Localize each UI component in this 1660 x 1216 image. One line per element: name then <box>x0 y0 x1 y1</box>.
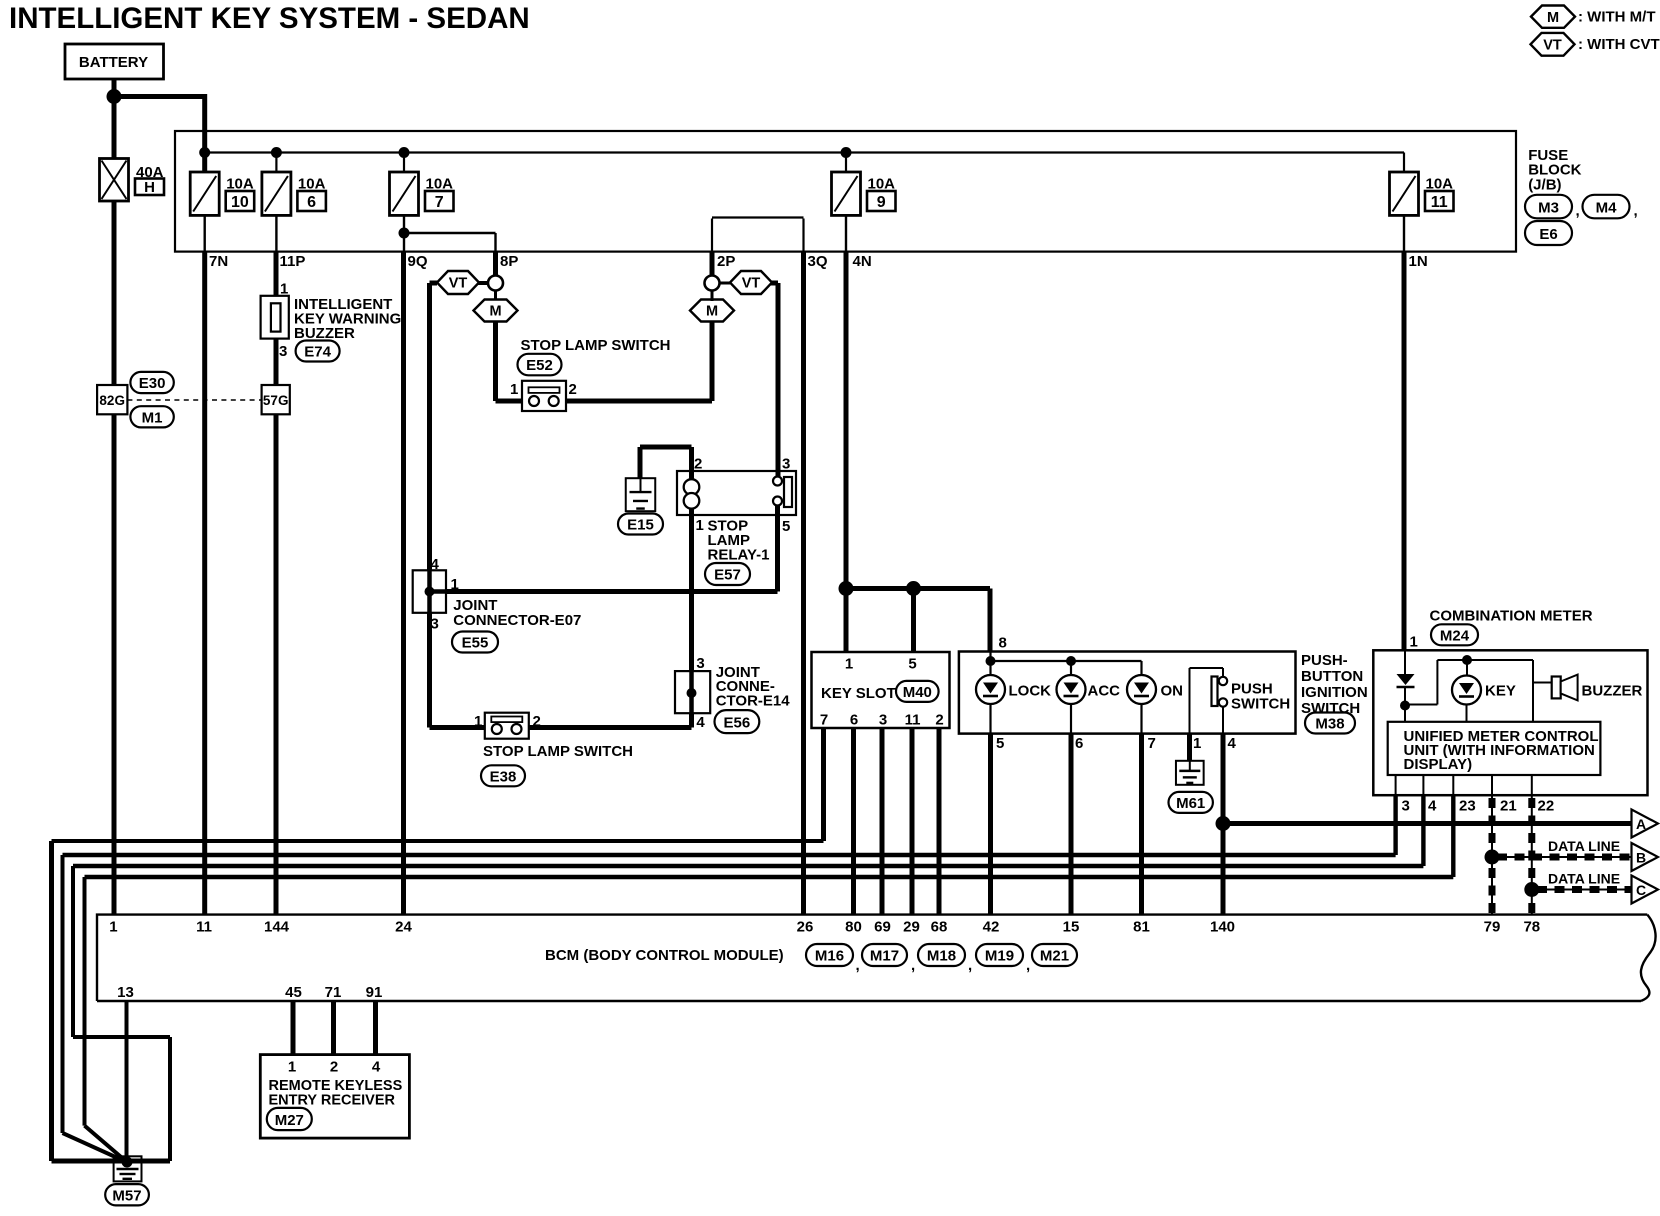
label terminal 9Q <box>408 253 428 270</box>
label relay pin 1 <box>696 517 704 534</box>
svg-text:15: 15 <box>1063 919 1080 936</box>
joint connector E55 box <box>413 570 446 613</box>
wire M stub 8P <box>494 290 497 301</box>
wire relay pin1 to joint connector E14 <box>689 505 694 671</box>
svg-text:8P: 8P <box>500 253 518 270</box>
node meter diode <box>1400 701 1410 711</box>
svg-text:,: , <box>1576 203 1580 220</box>
wire meter internal <box>1405 660 1552 722</box>
symbol M 8P <box>474 300 518 322</box>
svg-text:B: B <box>1636 850 1646 866</box>
svg-text:2: 2 <box>330 1059 338 1076</box>
svg-text:11: 11 <box>1431 194 1448 211</box>
svg-text:DATA LINE: DATA LINE <box>1548 871 1620 887</box>
label combination meter <box>1430 608 1593 625</box>
wire fuse 7 out <box>403 215 405 251</box>
terminal A <box>1632 810 1659 838</box>
label meter pin 3 <box>1402 798 1410 815</box>
svg-text:1: 1 <box>288 1059 296 1076</box>
svg-text:69: 69 <box>874 919 891 936</box>
wire relay pin5 to joint connector E55 <box>446 505 778 592</box>
wire key slot pin2 to BCM 68 <box>937 728 942 915</box>
fusible link H 40A <box>100 159 165 202</box>
svg-text:KEY: KEY <box>1485 683 1516 700</box>
wire battery stub <box>112 79 117 97</box>
label receiver pin 2 <box>330 1059 338 1076</box>
symbol VT 8P <box>437 271 489 294</box>
svg-text:3: 3 <box>782 456 790 473</box>
label key slot pin 3 <box>879 712 887 729</box>
svg-text:SWITCH: SWITCH <box>1231 696 1290 713</box>
wire 9Q to BCM 24 <box>401 252 406 915</box>
svg-text:7: 7 <box>1148 735 1156 752</box>
svg-text:6: 6 <box>307 194 316 211</box>
ground E15 <box>626 478 656 511</box>
label E14 pin 4 <box>696 714 705 731</box>
svg-text:45: 45 <box>285 984 302 1001</box>
wire line A <box>1223 821 1632 826</box>
label E55 pin 3 <box>431 616 439 633</box>
svg-text:,: , <box>968 957 972 974</box>
connector M19 <box>976 944 1030 974</box>
svg-text:1: 1 <box>451 576 459 593</box>
label terminal 11P <box>280 253 306 270</box>
node data line B <box>1485 850 1500 865</box>
connector M18 <box>918 944 972 974</box>
label terminal 2P <box>717 253 735 270</box>
diode meter <box>1397 650 1415 701</box>
svg-text:RELAY-1: RELAY-1 <box>708 547 770 564</box>
connector E6 <box>1525 221 1572 245</box>
svg-text:M57: M57 <box>112 1187 141 1204</box>
svg-text:CTOR-E14: CTOR-E14 <box>716 693 791 710</box>
label E55 pin 4 <box>431 556 440 573</box>
wire VT 2P to relay pin 3 <box>771 283 778 477</box>
wire bus <box>205 153 1404 173</box>
svg-text:STOP LAMP SWITCH: STOP LAMP SWITCH <box>521 337 671 354</box>
connector E38 <box>481 765 525 786</box>
wire M38 pin6 to BCM 15 <box>1069 734 1074 915</box>
svg-text:M: M <box>489 304 501 320</box>
wire meter pin3 ground run <box>63 795 1396 855</box>
wire key slot pin5 stub <box>911 589 916 653</box>
node battery junction <box>107 89 122 104</box>
connector M3 <box>1525 195 1580 220</box>
fuse block J/B box <box>175 131 1516 252</box>
svg-text:,: , <box>1634 203 1638 220</box>
svg-text:E30: E30 <box>139 375 166 392</box>
label E55 pin 1 <box>451 576 459 593</box>
svg-text:E15: E15 <box>627 517 654 534</box>
wire bus drop fuse 9 <box>845 153 847 173</box>
wire BCM 13 to ground M57 <box>125 1001 129 1162</box>
wire fuse 6 out <box>275 215 277 251</box>
fuse 11 10A <box>1390 172 1454 215</box>
svg-text:E38: E38 <box>490 768 517 785</box>
wire ground bus A <box>52 841 824 1161</box>
node key slot 1 <box>839 581 854 596</box>
svg-text:M17: M17 <box>870 948 899 965</box>
node data line C <box>1524 882 1539 897</box>
svg-text:1: 1 <box>1193 735 1201 752</box>
svg-text:11P: 11P <box>280 253 306 270</box>
svg-text:M38: M38 <box>1315 716 1344 733</box>
svg-text:COMBINATION METER: COMBINATION METER <box>1430 608 1593 625</box>
svg-text:80: 80 <box>845 919 862 936</box>
label BCM terminal 79 <box>1484 919 1501 936</box>
svg-text:BATTERY: BATTERY <box>79 54 148 71</box>
buzzer meter <box>1552 675 1643 701</box>
label E38 pin 2 <box>533 713 541 730</box>
wire M 8P to stop lamp switch E52 <box>496 321 523 401</box>
svg-text:2: 2 <box>935 712 943 729</box>
svg-text:10: 10 <box>231 194 249 211</box>
label BCM terminal 24 <box>395 919 412 936</box>
wire ground bus B <box>63 855 127 1162</box>
svg-text:140: 140 <box>1210 919 1235 936</box>
label BCM terminal 13 <box>117 984 134 1001</box>
label BCM terminal 1 <box>109 919 117 936</box>
key slot box M40 <box>812 652 950 728</box>
fuse 9 10A <box>832 172 896 215</box>
svg-text:LOCK: LOCK <box>1009 683 1052 700</box>
unified meter control unit box <box>1388 722 1601 775</box>
svg-text:INTELLIGENT KEY SYSTEM - SEDAN: INTELLIGENT KEY SYSTEM - SEDAN <box>9 2 530 35</box>
connector M21 <box>1032 944 1077 966</box>
label push-button ignition switch <box>1301 652 1368 717</box>
svg-text:(J/B): (J/B) <box>1528 176 1561 193</box>
wire relay pin2 to ground E15 <box>640 447 692 479</box>
wire 3Q to BCM 26 <box>801 252 806 915</box>
connector M57 <box>105 1184 149 1205</box>
wire E55 internal <box>430 570 447 613</box>
label remote keyless entry receiver <box>269 1078 403 1109</box>
wire meter pin21 to BCM 79 <box>1491 795 1493 914</box>
connector M61 <box>1169 792 1213 813</box>
label key slot pin 6 <box>850 712 858 729</box>
wire fusible link to BCM pin 1 <box>112 201 117 915</box>
label unified meter control unit <box>1404 728 1599 773</box>
fuse 6 10A <box>262 172 326 215</box>
svg-text:7: 7 <box>435 194 444 211</box>
node bus fuse 9 <box>841 147 852 158</box>
wire M38 led bus <box>991 652 1142 676</box>
label key slot pin 11 <box>905 712 921 729</box>
node key slot 5 <box>906 581 921 596</box>
connector E57 <box>705 563 750 585</box>
svg-text:71: 71 <box>325 984 342 1001</box>
legend CVT symbol <box>1531 33 1660 56</box>
connector E55 <box>452 632 498 653</box>
connector M40 <box>896 681 939 702</box>
wire branch 8P <box>404 233 496 252</box>
svg-text:E6: E6 <box>1539 226 1557 243</box>
svg-text:M1: M1 <box>142 409 163 426</box>
wire 2P drop <box>710 252 715 276</box>
wire E55 pin3 to stop lamp switch E38 <box>430 613 485 728</box>
wire fuse 9 out <box>845 215 847 251</box>
svg-text:CONNECTOR-E07: CONNECTOR-E07 <box>453 612 581 629</box>
svg-text:5: 5 <box>908 656 916 673</box>
svg-text:: WITH M/T: : WITH M/T <box>1578 8 1655 25</box>
svg-text:DATA LINE: DATA LINE <box>1548 838 1620 854</box>
connector M1 <box>130 406 173 427</box>
label data line C <box>1548 871 1620 887</box>
svg-text:4N: 4N <box>853 253 872 270</box>
svg-text:4: 4 <box>1428 798 1437 815</box>
led KEY <box>1452 676 1516 705</box>
svg-text:6: 6 <box>850 712 858 729</box>
label E52 pin 2 <box>569 381 577 398</box>
remote keyless entry receiver box <box>260 1055 409 1139</box>
wire bus drop fuse 6 <box>275 153 277 173</box>
ground M57 <box>114 1156 142 1181</box>
svg-text:7N: 7N <box>209 253 228 270</box>
svg-text:57G: 57G <box>263 393 289 408</box>
svg-text:23: 23 <box>1459 798 1476 815</box>
wire M38 pin5 to BCM 42 <box>988 734 993 915</box>
push-button ignition switch M38 box <box>959 652 1296 734</box>
label fuse block <box>1528 147 1581 193</box>
svg-text:M27: M27 <box>275 1112 304 1129</box>
node line A <box>1216 816 1231 831</box>
svg-text:3: 3 <box>696 655 704 672</box>
connector M17 <box>862 944 915 974</box>
svg-text:4: 4 <box>696 714 705 731</box>
label M38 pin 7 <box>1148 735 1156 752</box>
label receiver pin 4 <box>372 1059 381 1076</box>
connector E15 <box>618 514 663 535</box>
wire fuse 11 out <box>1403 215 1405 251</box>
svg-text:1: 1 <box>845 656 853 673</box>
wire E38 to joint connector E14 <box>529 713 691 727</box>
label terminal 7N <box>209 253 228 270</box>
svg-text:2P: 2P <box>717 253 735 270</box>
svg-text:E52: E52 <box>526 357 553 374</box>
label key slot <box>821 685 896 702</box>
connector M27 <box>267 1108 312 1130</box>
wire 1N to combination meter <box>1402 252 1407 651</box>
wire key slot pin1 stub <box>844 589 849 653</box>
connector E30 <box>130 372 173 393</box>
svg-text:IGNITION: IGNITION <box>1301 684 1368 701</box>
svg-text:M: M <box>1547 10 1559 26</box>
label BCM terminal 15 <box>1063 919 1080 936</box>
title <box>9 2 530 35</box>
wire BCM 71 to receiver 2 <box>331 1001 336 1055</box>
label BCM terminal 140 <box>1210 919 1235 936</box>
svg-text:1N: 1N <box>1409 253 1428 270</box>
label meter pin 22 <box>1538 798 1555 815</box>
svg-text:E57: E57 <box>714 567 741 584</box>
svg-text:5: 5 <box>996 735 1004 752</box>
svg-text:PUSH-: PUSH- <box>1301 652 1348 669</box>
wire 4N drop <box>844 252 849 589</box>
svg-text:ACC: ACC <box>1088 683 1121 700</box>
wire fuse 10 out <box>203 215 205 251</box>
wire M38 pin4 to BCM 140 <box>1221 734 1226 915</box>
stop lamp switch E38 <box>485 713 529 739</box>
label M38 pin 5 <box>996 735 1004 752</box>
connector 82G <box>97 385 127 414</box>
relay coil <box>684 479 700 508</box>
stop lamp relay-1 E57 box <box>677 471 796 515</box>
label meter pin 1 <box>1410 634 1418 651</box>
svg-text:2: 2 <box>569 381 577 398</box>
led ACC <box>1057 675 1121 704</box>
symbol VT 2P <box>730 271 772 294</box>
svg-text:E56: E56 <box>724 715 751 732</box>
svg-text:BCM (BODY CONTROL MODULE): BCM (BODY CONTROL MODULE) <box>545 947 784 964</box>
connector M24 <box>1431 624 1478 645</box>
label key slot pin 2 <box>935 712 943 729</box>
node bus fuse 10 <box>199 147 210 158</box>
svg-text:29: 29 <box>903 919 920 936</box>
BCM box <box>97 915 1656 1001</box>
svg-text:9: 9 <box>877 194 886 211</box>
wire link 82G-57G <box>127 399 261 401</box>
relay contact <box>773 477 792 508</box>
led ON <box>1127 675 1183 704</box>
ground M61 <box>1176 761 1204 785</box>
svg-text:11: 11 <box>196 919 212 936</box>
wire battery to fusible link <box>112 97 117 159</box>
label BCM terminal 29 <box>903 919 920 936</box>
label meter pin 23 <box>1459 798 1476 815</box>
led LOCK <box>976 675 1051 704</box>
label BCM terminal 144 <box>264 919 290 936</box>
svg-text:4: 4 <box>1228 735 1237 752</box>
label terminal 3Q <box>808 253 828 270</box>
svg-text:3: 3 <box>1402 798 1410 815</box>
svg-text:4: 4 <box>372 1059 381 1076</box>
fuse 7 10A <box>390 172 454 215</box>
label key slot pin 5 <box>908 656 916 673</box>
svg-text:1: 1 <box>1410 634 1418 651</box>
svg-text:ON: ON <box>1161 683 1184 700</box>
label BCM <box>545 947 784 964</box>
wire M38 pin8 <box>988 589 993 652</box>
wire E14 internal <box>689 671 694 713</box>
label BCM terminal 69 <box>874 919 891 936</box>
label M38 pin 1 <box>1193 735 1201 752</box>
svg-text:26: 26 <box>797 919 814 936</box>
label stop lamp switch E52 <box>521 337 671 354</box>
label key slot pin 7 <box>820 712 828 729</box>
svg-text:3Q: 3Q <box>808 253 828 270</box>
svg-text:VT: VT <box>742 276 761 292</box>
svg-text:VT: VT <box>1543 38 1562 54</box>
wire ground bus D <box>85 877 127 1162</box>
svg-text:1: 1 <box>510 381 518 398</box>
wire meter pin stubs <box>1396 775 1532 795</box>
svg-text:M18: M18 <box>927 948 956 965</box>
svg-text:M4: M4 <box>1596 200 1617 217</box>
svg-text:DISPLAY): DISPLAY) <box>1404 756 1473 773</box>
wire data line B <box>1492 856 1632 858</box>
wire key slot pin11 to BCM 29 <box>910 728 915 915</box>
terminal B <box>1632 843 1659 871</box>
svg-text:4: 4 <box>431 556 440 573</box>
svg-text:,: , <box>856 957 860 974</box>
label joint connector E07 <box>453 597 581 629</box>
svg-text:M24: M24 <box>1440 627 1470 644</box>
stop lamp switch E52 <box>522 381 566 411</box>
node M38 lock <box>986 656 996 666</box>
wire key slot pin7 to ground bus <box>821 728 826 841</box>
node branch 8P <box>399 228 410 239</box>
svg-text:68: 68 <box>931 919 948 936</box>
svg-text:M21: M21 <box>1040 948 1069 965</box>
label BCM terminal 68 <box>931 919 948 936</box>
wire circle to VT 2P <box>720 282 731 285</box>
node M38 acc <box>1066 656 1076 666</box>
label E14 pin 3 <box>696 655 704 672</box>
node meter key <box>1462 655 1472 665</box>
battery <box>65 44 164 79</box>
wire link 2P-3Q <box>712 218 804 252</box>
connector M38 <box>1305 713 1355 734</box>
wire M stub 2P <box>711 290 714 301</box>
svg-text:A: A <box>1636 816 1646 832</box>
label data line B <box>1548 838 1620 854</box>
wire led outputs <box>991 704 1142 734</box>
wire key slot pin6 to BCM 80 <box>851 728 856 915</box>
legend M/T symbol <box>1531 6 1655 28</box>
wire BCM 91 to receiver 4 <box>373 1001 378 1055</box>
label relay pin 3 <box>782 456 790 473</box>
wire key led out <box>1466 705 1468 722</box>
wire key slot feed <box>846 586 990 591</box>
label stop lamp relay-1 <box>708 518 770 564</box>
connector 57G <box>262 385 290 414</box>
svg-text:1: 1 <box>474 713 482 730</box>
svg-text:3: 3 <box>879 712 887 729</box>
label M38 pin 6 <box>1075 735 1083 752</box>
svg-text:1: 1 <box>280 281 288 298</box>
svg-text:2: 2 <box>694 456 702 473</box>
wire E52 to M 2P <box>566 321 712 401</box>
svg-text:,: , <box>911 957 915 974</box>
wire BCM 45 to receiver 1 <box>291 1001 296 1055</box>
svg-text:1: 1 <box>696 517 704 534</box>
svg-text:H: H <box>144 179 155 196</box>
node bus fuse 7 <box>399 147 410 158</box>
label BCM terminal 80 <box>845 919 862 936</box>
svg-text:13: 13 <box>117 984 134 1001</box>
buzzer E74 intelligent key warning <box>261 281 402 362</box>
svg-text:M16: M16 <box>815 948 844 965</box>
node bus fuse 6 <box>271 147 282 158</box>
wire 11P to BCM 144 <box>274 252 279 915</box>
svg-text:M3: M3 <box>1538 200 1559 217</box>
label M38 pin 4 <box>1228 735 1237 752</box>
svg-text:VT: VT <box>449 276 468 292</box>
svg-text:21: 21 <box>1500 798 1517 815</box>
node 8P circle <box>488 276 503 291</box>
svg-text:3: 3 <box>279 343 287 360</box>
wire key slot pin3 to BCM 69 <box>880 728 885 915</box>
svg-text:M40: M40 <box>903 684 932 701</box>
label terminal 4N <box>853 253 872 270</box>
svg-text:M19: M19 <box>985 948 1014 965</box>
connector E52 <box>518 354 562 376</box>
wire 8P drop <box>493 252 498 276</box>
label BCM terminal 26 <box>797 919 814 936</box>
wire meter pin4 ground run <box>73 795 1423 866</box>
svg-text:STOP LAMP SWITCH: STOP LAMP SWITCH <box>483 743 633 760</box>
label BCM terminal 11 <box>196 919 212 936</box>
